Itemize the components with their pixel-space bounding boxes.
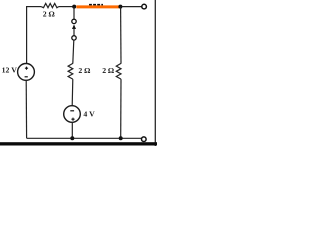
V2 plus sign <box>71 118 74 121</box>
svg-text:12 V: 12 V <box>2 65 18 74</box>
terminal a (open circle, top right) <box>142 4 147 9</box>
V1 minus sign <box>25 76 28 78</box>
right branch: wire node B down to resistor R3 <box>120 7 122 64</box>
wire V2 to bottom rail <box>71 122 73 138</box>
highlighted wire (orange) node A to node B <box>76 5 119 8</box>
resistor R2 2ohm (middle vertical) <box>68 63 73 79</box>
wire resistor to node A <box>59 6 74 8</box>
V2 minus sign <box>70 110 74 112</box>
wire between arrow and lower terminal <box>73 28 75 36</box>
resistor R1 2ohm (top) <box>42 3 59 7</box>
svg-text:2 Ω: 2 Ω <box>78 66 90 75</box>
node B junction dot <box>118 5 122 9</box>
dashed mark over highlighted wire <box>89 4 103 6</box>
junction dot V2 on rail <box>70 136 74 140</box>
bottom black bar <box>0 142 157 145</box>
lower open terminal on middle branch <box>72 36 76 40</box>
left branch: wire corner down to source V1 <box>26 6 28 63</box>
wire top-left horizontal <box>27 6 42 8</box>
voltage source V2 4V circle <box>64 106 81 123</box>
page right border line <box>154 0 156 146</box>
upper open terminal on middle branch <box>72 19 76 23</box>
wire R2 to source V2 <box>71 79 74 105</box>
node A junction dot <box>72 5 76 9</box>
svg-text:2 Ω: 2 Ω <box>43 10 55 19</box>
wire node B to terminal a <box>122 6 142 8</box>
terminal b (open circle, bottom right) <box>142 137 147 142</box>
resistor R3 2ohm (right vertical) <box>116 63 121 79</box>
junction dot right branch on rail <box>119 136 123 140</box>
wire R3 to bottom rail <box>120 79 122 138</box>
bottom rail wire <box>27 137 142 139</box>
V1 plus sign <box>25 67 28 70</box>
wire node A down to upper terminal <box>73 7 75 20</box>
wire lower terminal to resistor R2 <box>73 40 74 64</box>
voltage source V1 12V circle <box>18 64 35 81</box>
svg-text:2 Ω: 2 Ω <box>102 66 114 75</box>
wire V1 to bottom-left corner <box>25 80 27 138</box>
current arrowhead (up) <box>72 24 76 29</box>
svg-text:4 V: 4 V <box>83 110 95 119</box>
